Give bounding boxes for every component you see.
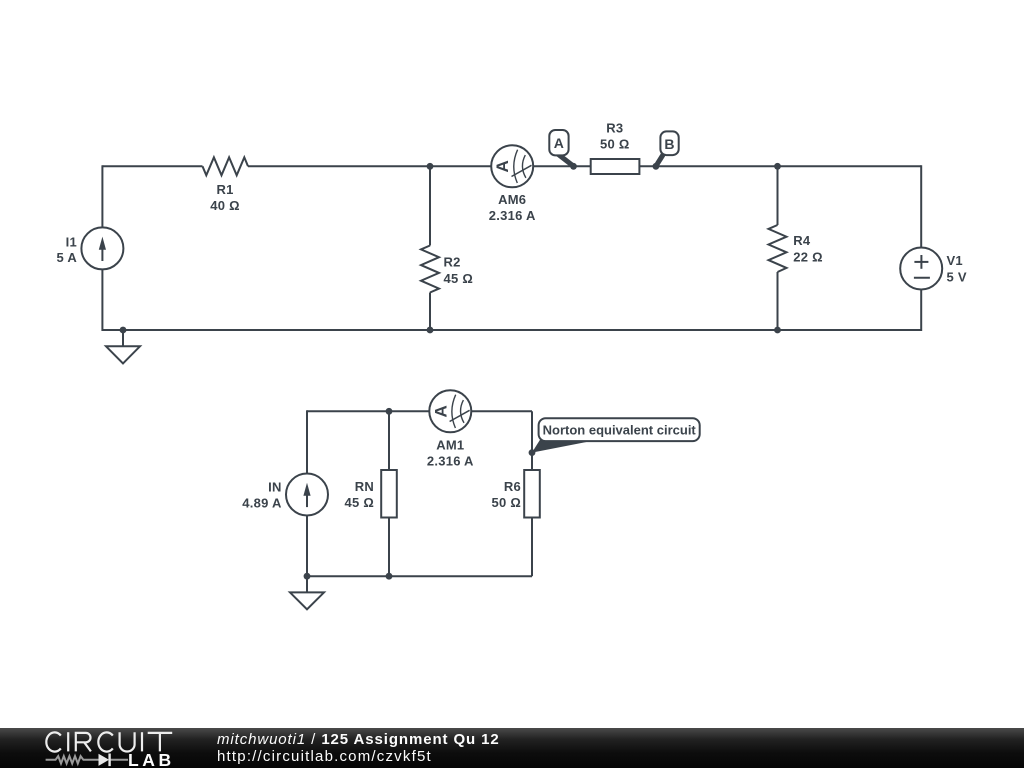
node B [653,163,660,170]
current source IN [286,474,328,516]
logo letter C2 [98,732,112,751]
ammeter AM6 [491,145,533,187]
resistor R6 [524,470,540,518]
resistor R4 [769,225,787,272]
svg-text:4.89 A: 4.89 A [242,496,282,511]
wire RN stem top [388,411,390,470]
svg-text:LAB: LAB [128,750,175,768]
wire R6 stem top [531,411,533,470]
svg-text:R6: R6 [504,479,521,494]
svg-text:R1: R1 [216,182,233,197]
svg-text:50 Ω: 50 Ω [600,137,630,152]
CircuitLab logo [0,728,200,768]
node R4 bottom [774,327,781,334]
svg-text:AM1: AM1 [436,438,464,453]
wire bottom rail [102,329,921,331]
node flag B [657,131,679,165]
node callout anchor [529,449,536,456]
svg-text:22 Ω: 22 Ω [793,249,823,264]
ground top circuit [106,330,140,363]
logo letter R [76,733,91,752]
logo letter I2 [141,732,143,751]
logo letter I [67,732,69,751]
svg-text:A: A [554,135,564,151]
resistor R3 [591,159,640,174]
bottom circuit: top wire right [471,410,532,412]
svg-text:40 Ω: 40 Ω [210,198,240,213]
node ground bottom [304,573,311,580]
wire left vertical bottom [101,269,103,331]
node ground top [120,327,127,334]
footer line 2 [217,748,432,765]
footer line 1 [217,731,500,748]
svg-text:V1: V1 [947,253,963,268]
wire R2 stem top [429,166,431,245]
resistor RN [381,470,397,518]
wire right vertical bottom [920,290,922,332]
wire RN stem bottom [388,518,390,577]
wire left vertical top [101,165,103,227]
bottom circuit: left vertical bottom [306,516,308,578]
wire top rail left segment [102,165,202,167]
svg-text:50 Ω: 50 Ω [492,495,522,510]
logo diode triangle [99,754,110,766]
ammeter AM1 [429,390,471,432]
wire R6 stem bottom [531,518,533,577]
svg-text:45 Ω: 45 Ω [444,271,474,286]
current source I1 [81,227,123,269]
node R4 top [774,163,781,170]
svg-text:2.316 A: 2.316 A [489,208,536,223]
svg-text:45 Ω: 45 Ω [345,495,375,510]
node R2 top [427,163,434,170]
wire top rail AM6 to R3 [533,165,591,167]
svg-text:Norton equivalent circuit: Norton equivalent circuit [543,422,697,437]
wire top rail R3 to right corner [639,165,921,167]
resistor R2 [421,246,439,293]
svg-text:RN: RN [355,479,374,494]
svg-text:IN: IN [268,480,282,495]
logo diode bar [108,754,110,767]
svg-text:A: A [493,160,512,172]
junction node dots [120,163,781,580]
svg-text:R2: R2 [444,255,461,270]
svg-text:B: B [664,136,674,152]
wire R4 stem top [777,166,779,225]
bottom circuit: top wire left [307,410,429,412]
node flag A [549,130,572,165]
svg-text:I1: I1 [66,234,77,249]
logo resistor-diode symbol [46,756,128,763]
wire R4 stem bottom [777,272,779,330]
logo letter C [46,732,60,751]
svg-text:2.316 A: 2.316 A [427,453,474,468]
callout Norton equivalent circuit [532,418,700,452]
svg-text:5 V: 5 V [947,269,967,284]
ground bottom circuit [290,576,324,609]
svg-text:R3: R3 [606,120,623,135]
svg-text:AM6: AM6 [498,192,526,207]
logo letter T [148,733,173,752]
bottom circuit: bottom rail [307,575,532,577]
node A [570,163,577,170]
wire right vertical top [920,165,922,247]
node R2 bottom [427,327,434,334]
bottom circuit: left vertical top [306,410,308,473]
svg-text:A: A [431,405,450,417]
logo letter U [120,732,135,751]
wire R2 stem bottom [429,293,431,331]
footer bar [0,728,1024,768]
wire top rail R1 to AM6 [248,165,491,167]
voltage source V1 [900,248,942,290]
svg-text:R4: R4 [793,233,811,248]
node RN top [386,408,393,415]
resistor R1 [203,157,249,175]
node RN bottom [386,573,393,580]
svg-text:5 A: 5 A [57,250,78,265]
